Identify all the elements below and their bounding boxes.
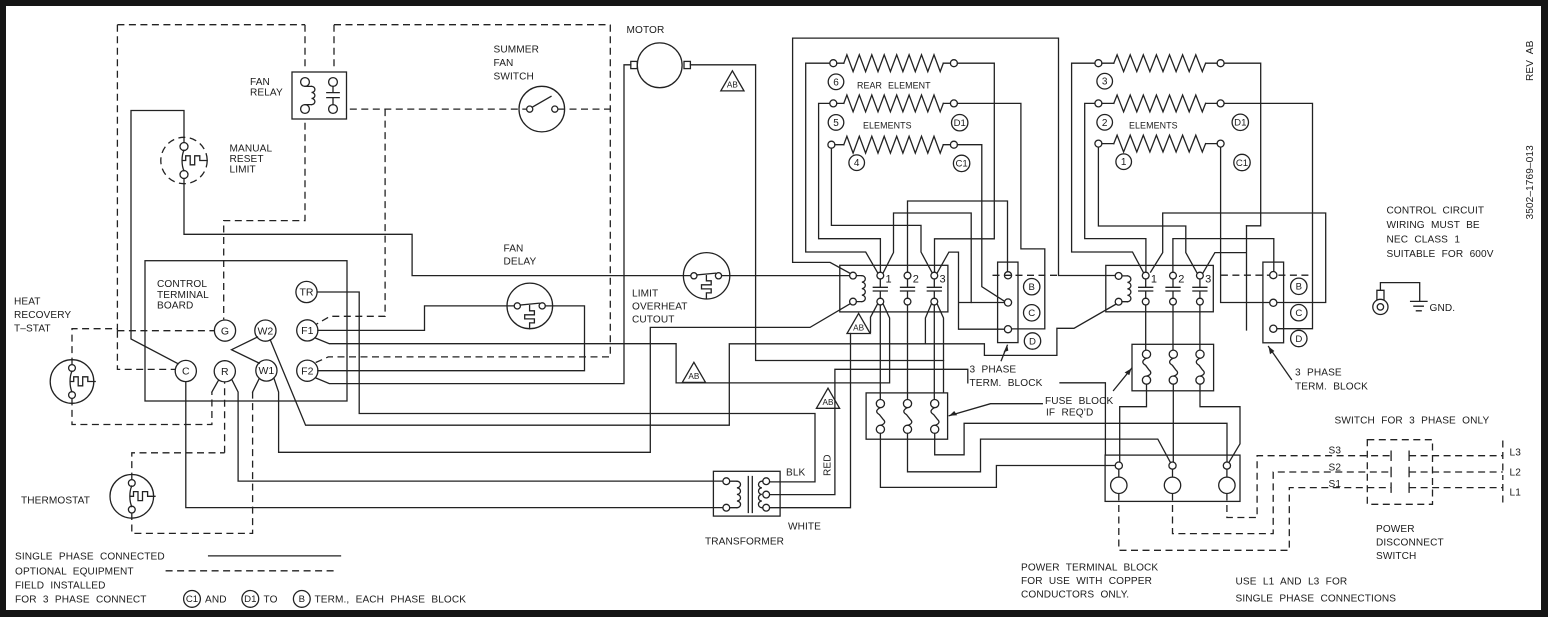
svg-text:ELEMENTS: ELEMENTS: [1129, 120, 1178, 130]
wire element 4 right to term strip row C: [957, 145, 1004, 302]
wire C to manual reset limit: [131, 111, 184, 364]
svg-text:D: D: [1295, 334, 1302, 345]
terminal W2: [255, 320, 276, 341]
wire dashed optional-equipment left riser: [116, 25, 118, 331]
svg-text:3 PHASE: 3 PHASE: [970, 365, 1017, 376]
resistor element 1: [1095, 140, 1102, 147]
svg-text:D: D: [1029, 336, 1036, 347]
resistor element 4: [828, 141, 835, 148]
svg-text:1: 1: [886, 274, 892, 286]
wire dashed thermostat top to R: [132, 382, 225, 480]
wire pole 3 riser between rows: [1203, 226, 1247, 330]
wire pole drops to fuse block 2: [1146, 305, 1200, 350]
svg-text:RED: RED: [823, 454, 834, 476]
svg-text:C1: C1: [955, 159, 967, 170]
summer fan switch: [519, 86, 565, 132]
svg-text:USE L1 AND L3 FOR: USE L1 AND L3 FOR: [1236, 577, 1348, 588]
wire fan delay to F2: [318, 306, 585, 371]
svg-text:FIELD INSTALLED: FIELD INSTALLED: [15, 581, 106, 592]
3 phase terminal strip 2: [1263, 262, 1284, 343]
svg-text:B: B: [299, 594, 305, 605]
wire motor right lead down to pole 3 drop: [690, 65, 943, 361]
resistor element 5: [830, 100, 837, 107]
svg-text:L3: L3: [1510, 448, 1522, 459]
svg-text:SINGLE PHASE CONNECTIONS: SINGLE PHASE CONNECTIONS: [1236, 594, 1397, 605]
svg-text:2: 2: [1102, 118, 1108, 129]
svg-text:AND: AND: [205, 595, 227, 606]
svg-text:F1: F1: [301, 325, 313, 337]
wire element 1 left to pole 3 of contactor 2: [1098, 147, 1197, 273]
wire pole 2 to term strip row B: [908, 201, 1008, 272]
svg-text:AB: AB: [853, 323, 864, 332]
motor: [637, 43, 682, 88]
fan delay: [507, 283, 553, 329]
svg-text:S2: S2: [1329, 463, 1342, 474]
wire fuse 1-3 to power terminal 3: [935, 423, 1227, 462]
wire dashed power terminal 3 to S3: [1227, 456, 1391, 518]
svg-text:TO: TO: [264, 595, 278, 606]
terminal C: [175, 360, 196, 381]
svg-text:RELAY: RELAY: [250, 88, 283, 99]
terminal R: [214, 361, 235, 382]
ground lug and symbol: [1373, 299, 1388, 314]
svg-text:FUSE BLOCK: FUSE BLOCK: [1045, 396, 1114, 407]
svg-text:OVERHEAT: OVERHEAT: [632, 302, 688, 313]
svg-text:T–STAT: T–STAT: [14, 324, 51, 335]
power disconnect switch: [1367, 440, 1432, 505]
resistor element 2: [1095, 100, 1102, 107]
wire dashed row B between term blocks: [993, 274, 1313, 276]
wire element 3 right jog to pole 3 riser: [1224, 63, 1261, 226]
wire dashed power terminal 1 to S1: [1119, 488, 1391, 551]
resistor element 6 (REAR ELEMENT): [830, 60, 837, 67]
wire W1 run to contactor 1 coil bottom: [274, 304, 850, 453]
svg-text:L1: L1: [1510, 488, 1522, 499]
AB flag below contactor M1: [847, 313, 870, 333]
svg-text:S3: S3: [1329, 446, 1342, 457]
svg-text:BOARD: BOARD: [157, 301, 193, 312]
wire element 2 left to pole 1 / pole 2 row: [1085, 103, 1146, 272]
svg-text:W2: W2: [258, 325, 274, 337]
svg-text:REAR ELEMENT: REAR ELEMENT: [857, 80, 931, 90]
svg-text:2: 2: [1178, 274, 1184, 286]
wire element 6 left to pole 1: [806, 63, 878, 273]
wire fuse 2-2 to power terminal 2: [1172, 384, 1174, 462]
svg-text:C: C: [1028, 308, 1035, 319]
wire element 5 right to term strip row D: [957, 103, 1044, 329]
fuse block 2: [1132, 344, 1214, 391]
wire dashed top run to summer fan switch riser: [334, 25, 610, 68]
wire dashed top run to fan relay: [117, 25, 305, 68]
terminal B bank1: [1023, 279, 1039, 295]
svg-text:R: R: [221, 366, 229, 378]
svg-text:HEAT: HEAT: [14, 297, 41, 308]
wire motor left lead to F2 line: [315, 65, 631, 384]
contactor M1 coil: [850, 272, 857, 279]
wire element 4 left to pole 3: [831, 148, 932, 273]
svg-text:MANUAL: MANUAL: [230, 144, 273, 155]
svg-text:D1: D1: [1234, 118, 1246, 129]
AB flag near motor: [721, 71, 744, 91]
svg-text:FAN: FAN: [250, 77, 270, 88]
svg-text:THERMOSTAT: THERMOSTAT: [21, 496, 90, 507]
svg-text:G: G: [221, 325, 229, 337]
svg-text:GND.: GND.: [1430, 303, 1456, 314]
svg-text:TERM., EACH PHASE BLOCK: TERM., EACH PHASE BLOCK: [315, 595, 467, 606]
AB flag on F1 run: [682, 362, 705, 382]
contactor M2 coil: [1115, 273, 1122, 280]
svg-text:TR: TR: [300, 287, 314, 299]
svg-text:CONTROL CIRCUIT: CONTROL CIRCUIT: [1387, 206, 1485, 217]
wire dashed junction down to C: [117, 331, 175, 370]
fan relay: [292, 72, 347, 119]
wire pole 2 riser to term strip 2 row B: [1173, 239, 1274, 273]
svg-text:TERMINAL: TERMINAL: [157, 290, 209, 301]
svg-text:FAN: FAN: [504, 244, 524, 255]
svg-text:SUMMER: SUMMER: [494, 45, 539, 56]
svg-text:W1: W1: [259, 365, 275, 377]
contactor M1 pole 1: [877, 272, 884, 279]
svg-text:AB: AB: [688, 372, 699, 381]
svg-text:D1: D1: [244, 594, 256, 605]
AB flag on RED riser: [816, 388, 839, 408]
terminal B bank2: [1291, 278, 1307, 294]
wire TR to transformer BLK: [317, 292, 815, 482]
terminal D1 bank2: [1232, 114, 1248, 130]
svg-text:NEC CLASS 1: NEC CLASS 1: [1387, 235, 1461, 246]
svg-text:C1: C1: [186, 594, 198, 605]
L terminal bars: [1502, 441, 1504, 504]
svg-text:MOTOR: MOTOR: [627, 25, 665, 36]
fuse block 1: [866, 393, 948, 439]
svg-text:3: 3: [940, 274, 946, 286]
wire dashed thermostat bottom to W1: [132, 392, 253, 533]
svg-text:3502–1769–013: 3502–1769–013: [1525, 145, 1536, 220]
wire fuse 1-1 to power terminal 1: [880, 433, 1115, 487]
wire fuse 1-2 to power terminal 2: [908, 433, 1171, 471]
svg-text:FOR 3 PHASE CONNECT: FOR 3 PHASE CONNECT: [15, 595, 147, 606]
svg-text:6: 6: [833, 77, 839, 88]
transformer: [713, 471, 780, 516]
svg-text:DISCONNECT: DISCONNECT: [1376, 538, 1444, 549]
svg-text:SINGLE PHASE CONNECTED: SINGLE PHASE CONNECTED: [15, 552, 165, 563]
svg-text:POWER TERMINAL BLOCK: POWER TERMINAL BLOCK: [1021, 563, 1158, 574]
terminal C bank2: [1291, 305, 1307, 321]
terminal C bank1: [1023, 305, 1039, 321]
wire W2 run to contactor 2 coil bottom: [270, 304, 1116, 425]
svg-text:S1: S1: [1329, 479, 1342, 490]
wire R to transformer primary top: [232, 380, 723, 482]
wire F1 to fan delay: [318, 306, 514, 331]
wire limit overheat cutout to contactor 1 coil top: [722, 275, 850, 277]
heat recovery t-stat: [50, 360, 94, 404]
svg-text:WHITE: WHITE: [788, 522, 821, 533]
svg-text:DELAY: DELAY: [504, 257, 537, 268]
svg-text:OPTIONAL EQUIPMENT: OPTIONAL EQUIPMENT: [15, 567, 134, 578]
resistor element 3: [1095, 60, 1102, 67]
svg-text:FOR USE WITH COPPER: FOR USE WITH COPPER: [1021, 576, 1152, 587]
terminal F1: [297, 320, 318, 341]
terminal C1 bank1: [953, 155, 969, 171]
wire dashed power terminal 2 to S2: [1173, 472, 1392, 534]
wire RED transformer to power block: [770, 369, 1106, 494]
svg-text:RESET: RESET: [230, 154, 264, 165]
wire element 5 left to pole 1: [819, 103, 881, 272]
svg-text:B: B: [1028, 282, 1034, 293]
limit overheat cutout: [683, 253, 729, 299]
contactor M2 pole 1: [1142, 272, 1149, 279]
svg-text:REV AB: REV AB: [1525, 40, 1536, 81]
wire pole 3 diagonals down: [925, 304, 943, 393]
svg-text:C1: C1: [1236, 158, 1248, 169]
wire element 6 right to pole 3: [935, 63, 995, 272]
wire element 3 left to pole 1 of contactor 2: [1072, 63, 1144, 273]
svg-text:IF REQ’D: IF REQ’D: [1046, 408, 1093, 419]
svg-text:SWITCH: SWITCH: [1376, 551, 1416, 562]
control terminal board: [145, 261, 347, 401]
svg-text:CONTROL: CONTROL: [157, 279, 207, 290]
power terminal block: [1105, 455, 1240, 501]
wire jumper W2 to W1: [232, 337, 260, 363]
manual reset limit: [161, 137, 207, 183]
wire manual reset limit to limit overheat cutout: [184, 179, 691, 276]
wire element 1 right down to term strip 2 row C: [1151, 147, 1326, 302]
svg-text:LIMIT: LIMIT: [230, 165, 256, 176]
terminal G: [214, 320, 235, 341]
terminal D bank2: [1291, 330, 1307, 346]
wire dashed fan relay branch down to F1: [316, 109, 385, 324]
svg-text:B: B: [1296, 282, 1302, 293]
svg-text:F2: F2: [301, 365, 313, 377]
svg-text:RECOVERY: RECOVERY: [14, 310, 71, 321]
svg-text:LIMIT: LIMIT: [632, 289, 658, 300]
wire fuse 2-1 to power terminal 1: [1120, 384, 1147, 462]
wire dashed fan relay to G terminal: [224, 123, 305, 320]
wire element 2 right to term strip 2 row D: [1224, 103, 1312, 328]
svg-text:SWITCH FOR 3 PHASE ONLY: SWITCH FOR 3 PHASE ONLY: [1335, 416, 1490, 427]
wire pole drops to fuse block 1: [880, 305, 934, 400]
svg-text:4: 4: [854, 158, 860, 169]
svg-text:CONDUCTORS ONLY.: CONDUCTORS ONLY.: [1021, 590, 1129, 601]
wire pole 3 diag to term strip rows C and D: [937, 252, 1004, 329]
contactor M1 pole 2: [904, 272, 911, 279]
contactor M2 pole 2: [1170, 272, 1177, 279]
wire dashed summer fan switch riser down to F2: [316, 25, 611, 363]
wire dashed heat recovery top to junction and G: [72, 329, 214, 365]
svg-text:AB: AB: [823, 398, 834, 407]
terminal F2: [297, 360, 318, 381]
svg-text:1: 1: [1121, 157, 1127, 168]
terminal D1 bank1: [952, 115, 968, 131]
svg-text:2: 2: [913, 274, 919, 286]
terminal W1: [256, 360, 277, 381]
svg-text:SUITABLE FOR 600V: SUITABLE FOR 600V: [1387, 249, 1494, 260]
svg-text:3: 3: [1205, 274, 1211, 286]
svg-text:TERM. BLOCK: TERM. BLOCK: [1295, 382, 1368, 393]
wire C to transformer primary bottom: [186, 382, 723, 508]
terminal D bank1: [1024, 333, 1040, 349]
svg-text:C: C: [182, 366, 190, 378]
wire dashed heat recovery bottom to R: [72, 392, 212, 425]
contactor M1: [840, 265, 948, 312]
svg-text:C: C: [1295, 308, 1302, 319]
svg-text:FAN: FAN: [494, 58, 514, 69]
svg-text:3 PHASE: 3 PHASE: [1295, 368, 1342, 379]
svg-text:POWER: POWER: [1376, 524, 1415, 535]
svg-text:ELEMENTS: ELEMENTS: [863, 120, 912, 130]
3 phase terminal strip 1: [998, 262, 1018, 343]
wire pole 1 bottom left diag to AB flag: [871, 304, 878, 332]
contactor M2 pole 3: [1197, 272, 1204, 279]
wire fuse 2-3 to power terminal 3: [1200, 384, 1240, 462]
svg-text:3: 3: [1102, 77, 1108, 88]
svg-text:L2: L2: [1510, 468, 1522, 479]
svg-text:TRANSFORMER: TRANSFORMER: [705, 537, 784, 548]
thermostat: [110, 475, 154, 519]
element bank 1 outer loop wire (coil1 top to coil2 top): [793, 38, 1116, 275]
svg-text:CUTOUT: CUTOUT: [632, 315, 674, 326]
wire F1 lower run to contactor pole 1 bottom: [315, 304, 890, 383]
svg-text:5: 5: [833, 118, 839, 129]
svg-text:D1: D1: [954, 118, 966, 129]
svg-text:TERM. BLOCK: TERM. BLOCK: [970, 378, 1043, 389]
wire dashed fan relay to summer fan switch: [350, 108, 611, 110]
wire pole 1 diag to term strip row C: [883, 213, 971, 303]
svg-text:BLK: BLK: [786, 468, 806, 479]
wire WHITE transformer to AB flag at contactor 1: [770, 334, 851, 508]
contactor M2: [1106, 265, 1214, 311]
terminal TR: [296, 281, 317, 302]
svg-text:WIRING MUST BE: WIRING MUST BE: [1387, 220, 1480, 231]
svg-text:1: 1: [1151, 274, 1157, 286]
contactor M1 pole 3: [931, 272, 938, 279]
terminal C1 bank2: [1234, 154, 1250, 170]
svg-text:AB: AB: [727, 81, 738, 90]
svg-text:SWITCH: SWITCH: [494, 72, 534, 83]
